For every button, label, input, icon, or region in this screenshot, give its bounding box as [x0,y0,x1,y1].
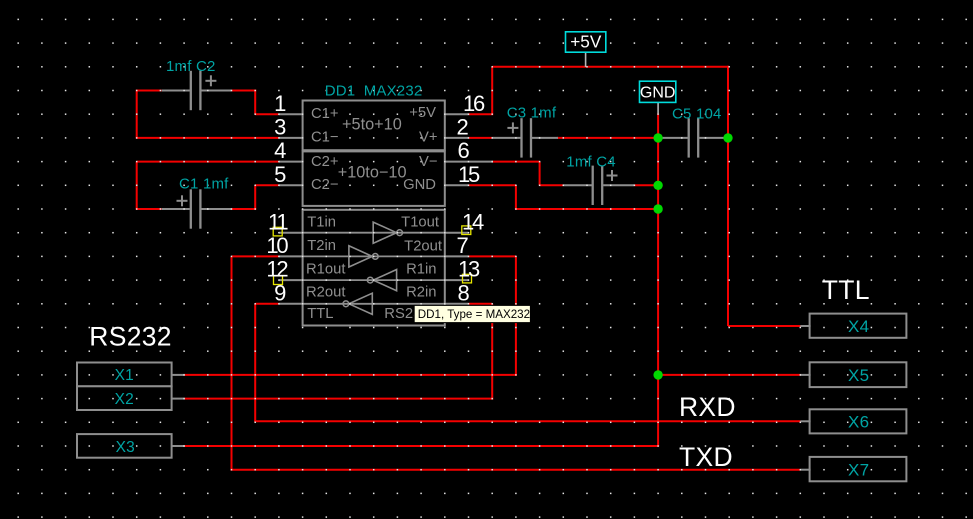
svg-text:+5V: +5V [409,105,436,121]
pin number 3 [274,115,286,140]
svg-text:X6: X6 [848,413,869,432]
wire +5V rail down to X4 [728,66,800,326]
pin number 2 [457,115,469,140]
node junction C5 +5V rail [723,133,732,142]
svg-text:C2+: C2+ [311,154,339,170]
connector X1 box [77,363,185,387]
wire +5V rail [492,67,729,114]
wire pin2 to C3 [469,137,493,139]
IC internal labels section1 [311,105,438,145]
node +5V power label [566,32,606,67]
wire X2 row [184,398,493,400]
svg-text:T2out: T2out [404,239,442,255]
op-amp U1 DD1 MAX232 body section1 [303,101,445,151]
svg-text:RS232: RS232 [89,321,172,351]
wire pin16 to +5V rail [469,113,494,115]
wire C1 loop pin4 [136,162,279,209]
wire pin 14 stub right [444,232,469,234]
pin number 16 [463,91,485,116]
pin number 11 [268,209,288,234]
pin number 13 [458,257,480,282]
connector X3 box [77,434,185,458]
svg-text:C3 1mf: C3 1mf [507,104,557,121]
wire C4 right to GND rail [634,184,658,186]
op-amp U1 DD1 MAX232 body section3 [303,210,445,326]
label RXD [679,392,736,422]
svg-text:C2−: C2− [311,177,339,193]
label TTL [822,275,870,305]
svg-text:X3: X3 [116,439,135,456]
label connector X3 [116,439,135,456]
node pin12 highlight square [274,276,283,285]
label connector X7 [848,460,869,479]
svg-text:DD1: DD1 [325,83,356,100]
buffer R1 [367,270,396,291]
svg-text:+5to+10: +5to+10 [342,116,402,134]
connector X5 box [800,362,906,387]
label DD1 MAX232 [325,83,423,100]
svg-text:RXD: RXD [679,392,736,422]
pin number 6 [458,138,470,163]
capacitor C4 [563,166,634,205]
svg-text:C1 1mf: C1 1mf [179,175,229,192]
wire pin 6 stub right [444,161,493,163]
label connector X6 [848,413,869,432]
wire GND rail to X5 [658,374,800,376]
pin number 14 [462,209,484,234]
svg-text:2: 2 [457,115,469,140]
wire pin10 to X7 TXD [231,256,801,469]
wire pin8 to X2 row [469,304,493,400]
wire pin 12 stub left [279,279,304,281]
svg-text:14: 14 [462,209,484,234]
node junction C3/C5 GND rail [653,133,662,142]
wire internal T2 signal line [303,255,445,257]
svg-text:X2: X2 [115,391,134,408]
wire pin15 to GND rail [469,185,659,209]
connector X6 box [800,409,906,433]
pin number 7 [457,233,469,258]
svg-text:C1+: C1+ [311,106,339,122]
svg-text:R1in: R1in [406,262,436,278]
node pin14 highlight square [462,226,471,235]
svg-text:5: 5 [274,162,286,187]
wire pin 10 stub left [279,255,304,257]
buffer T2 [349,246,378,267]
svg-text:TTL: TTL [822,275,870,305]
svg-text:R2in: R2in [406,285,436,301]
svg-text:X4: X4 [848,317,869,336]
svg-text:V+: V+ [419,130,438,146]
pin number 10 [266,233,288,258]
IC internal labels section2 [311,154,438,193]
wire pin 11 stub left [279,232,304,234]
pin number 8 [458,280,470,305]
wire pin 2 stub right [444,137,469,139]
svg-text:1mf C2: 1mf C2 [166,58,216,75]
label C2 value [166,58,216,75]
wire C2 loop pin3 [136,90,279,138]
label connector X5 [848,366,869,385]
capacitor C2 [162,71,232,110]
node pin11 highlight square [273,227,282,236]
svg-text:10: 10 [266,233,288,258]
wire pin 16 stub right [444,113,469,115]
svg-text:T1out: T1out [401,215,439,231]
wire pin9 to X6 RXD [254,304,800,422]
op-amp U1 DD1 MAX232 body section2 [303,151,445,206]
label RS232 [89,321,172,351]
svg-text:X1: X1 [115,367,134,384]
svg-text:9: 9 [274,280,286,305]
svg-text:+10to−10: +10to−10 [338,163,407,181]
wire pin 3 stub left [279,137,304,139]
node pin13 highlight square [463,274,472,283]
svg-text:GND: GND [640,84,676,101]
pin number 4 [274,138,286,163]
capacitor C1 [162,189,232,228]
wire X1 row [184,374,517,376]
buffer R2 [343,293,372,314]
svg-text:V−: V− [419,154,438,170]
connector X7 box [800,457,906,481]
label C1 value [179,175,229,192]
svg-text:15: 15 [458,162,480,187]
wire pin6 to C4 [492,162,563,186]
svg-text:TXD: TXD [679,442,733,472]
svg-text:X7: X7 [848,460,869,479]
svg-text:DD1, Type = MAX232: DD1, Type = MAX232 [418,308,530,321]
wire internal R1 signal line [303,279,445,281]
wire pin 5 stub left [279,184,304,186]
label C5 value [672,105,722,122]
svg-text:MAX232: MAX232 [364,83,423,100]
svg-text:3: 3 [274,115,286,140]
pin number 9 [274,280,286,305]
svg-text:T1in: T1in [307,215,336,231]
label TXD [679,442,733,472]
wire X3 row to GND rail [184,375,659,446]
wire pin 9 stub left [279,303,304,305]
label C3 value [507,104,557,121]
wire internal T1 signal line [303,232,445,234]
wire pin 15 stub right [444,184,469,186]
svg-text:C5 104: C5 104 [672,105,722,122]
svg-text:1: 1 [274,91,286,116]
svg-text:GND: GND [403,177,436,193]
wire internal R2 signal line [303,303,445,305]
node junction GND rail X5/X3 [653,370,662,379]
connector X2 box [77,386,185,410]
wire C2 loop pin1 [137,90,279,115]
svg-text:1mf C4: 1mf C4 [566,153,616,170]
capacitor C3 [492,118,558,157]
svg-text:6: 6 [458,138,470,163]
wire C1 loop pin5 [232,185,279,209]
label C4 value [566,153,616,170]
node junction pin15 GND rail [653,204,662,213]
wire pin 7 stub right [444,255,469,257]
svg-text:11: 11 [268,209,288,234]
svg-text:X5: X5 [848,366,869,385]
svg-text:+5V: +5V [570,32,602,52]
label connector X4 [848,317,869,336]
svg-text:R1out: R1out [306,262,346,278]
svg-text:7: 7 [457,233,469,258]
IC internal labels section3 [306,215,442,323]
pin number 15 [458,162,480,187]
pin number 1 [274,91,286,116]
wire C3 right to GND rail [557,137,658,139]
node GND power label [640,81,676,114]
node junction C4 GND rail [653,181,662,190]
tooltip DD1 Type = MAX232 [414,305,530,322]
svg-text:C1−: C1− [311,130,339,146]
svg-text:12: 12 [266,257,288,282]
svg-text:8: 8 [458,280,470,305]
wire pin 13 stub right [444,279,469,281]
svg-text:16: 16 [463,91,485,116]
svg-text:4: 4 [274,138,286,163]
svg-text:TTL: TTL [307,306,333,322]
svg-text:T2in: T2in [307,238,336,254]
buffer T1 [373,222,402,243]
wire pin 1 stub left [279,113,304,115]
capacitor C5 [658,118,728,157]
label connector X2 [115,391,134,408]
connector X4 box [800,314,906,338]
pin number 5 [274,162,286,187]
wire pin 4 stub left [279,161,304,163]
wire pin7 to X1 row [469,256,516,376]
wire GND rail vertical [657,113,659,375]
svg-text:13: 13 [458,257,480,282]
svg-text:R2out: R2out [306,285,346,301]
label connector X1 [115,367,134,384]
wire pin 8 stub right [444,303,469,305]
pin number 12 [266,257,288,282]
